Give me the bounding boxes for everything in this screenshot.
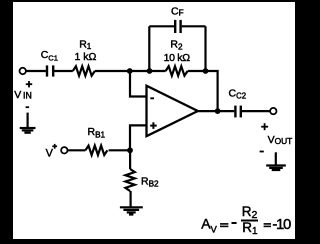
node B (feedback left) [147, 68, 153, 74]
capacitor CC1 [47, 65, 53, 76]
op-amp U1 [147, 86, 198, 137]
svg-text:VOUT: VOUT [268, 134, 293, 146]
wire RB2 to ground [130, 191, 132, 207]
op-amp minus sign [150, 97, 154, 99]
top rail wire to CF [149, 25, 174, 27]
capacitor CF [175, 20, 180, 33]
wire right node down to output [206, 71, 218, 111]
wire input to CC1 [26, 70, 46, 72]
formula fraction bar [241, 220, 258, 222]
input terminal circle VIN [20, 68, 26, 74]
node E (RB1/RB2 junction) [127, 147, 133, 153]
formula equals sign [220, 224, 228, 227]
V+ terminal circle [61, 147, 67, 153]
black frame borders [0, 0, 300, 2]
resistor R2 [166, 66, 188, 75]
wire CC1 to R1 [54, 70, 73, 72]
node C (feedback right) [203, 68, 209, 74]
feedback left vertical wire [148, 26, 150, 71]
node A (R1 / feedback / inverting input) [127, 68, 133, 74]
svg-text:-10: -10 [272, 216, 291, 233]
top rail wire from CF [182, 25, 206, 27]
ground under VIN [20, 113, 36, 133]
output wire [196, 110, 234, 112]
plus sign near VIN [26, 81, 32, 87]
node D (output) [215, 108, 221, 114]
formula Av = -R2/R1 = -10 [201, 204, 291, 237]
wire R2 to right node [188, 70, 206, 72]
feedback right vertical wire [204, 26, 206, 71]
capacitor CC2 [235, 106, 240, 118]
V+ superscript plus [52, 144, 57, 149]
ground under VOUT [266, 152, 286, 170]
wire RB1 to junction [109, 149, 130, 151]
svg-text:VIN: VIN [14, 89, 32, 101]
wire R1 to feedback node [95, 70, 166, 72]
ground under RB2 [120, 207, 143, 214]
wire node A down to inverting input [130, 71, 147, 97]
svg-text:10 kΩ: 10 kΩ [164, 52, 191, 64]
svg-text:1 kΩ: 1 kΩ [75, 51, 97, 63]
formula equals [264, 224, 271, 227]
formula minus sign [232, 222, 237, 224]
wire V+ to RB1 [68, 149, 86, 151]
output terminal circle VOUT [270, 108, 276, 114]
wire CC2 to output terminal [242, 110, 270, 112]
wire junction up to non-inverting input [130, 125, 147, 150]
resistor RB2 [125, 169, 134, 191]
minus sign near VIN [26, 106, 30, 108]
svg-text:V: V [46, 147, 54, 159]
wire junction down to RB2 [129, 150, 131, 169]
op-amp plus sign [150, 122, 157, 129]
minus sign near VOUT [260, 151, 264, 153]
resistor R1 [73, 66, 95, 75]
resistor RB1 [85, 146, 107, 155]
junction node dots [127, 68, 221, 153]
plus sign near VOUT [261, 123, 268, 130]
